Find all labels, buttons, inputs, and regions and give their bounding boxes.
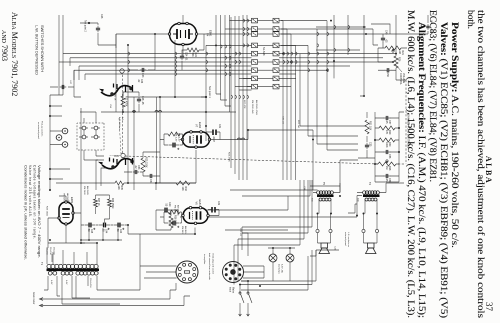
LS sockets channel 1 bbox=[329, 229, 332, 232]
wire: rails band 3 below switches bbox=[231, 15, 247, 180]
wire: V4 electrode connections bbox=[116, 15, 183, 56]
wire: plug leads bbox=[243, 266, 264, 278]
junction dots at rail crossings bbox=[395, 53, 397, 55]
svg-text:Alba Models 7901, 7902: Alba Models 7901, 7902 bbox=[10, 12, 19, 96]
svg-text:R50 1K: R50 1K bbox=[114, 93, 116, 101]
svg-text:C32: C32 bbox=[217, 201, 219, 206]
svg-text:250-0-250: 250-0-250 bbox=[89, 278, 91, 288]
pick-up plug dashed panel bbox=[77, 123, 104, 150]
svg-text:V4: V4 bbox=[206, 33, 210, 37]
svg-text:EL84: EL84 bbox=[198, 122, 202, 129]
svg-text:R37 1K: R37 1K bbox=[97, 198, 99, 206]
svg-text:CONTROL: CONTROL bbox=[399, 73, 402, 85]
capacitor C53 bbox=[133, 171, 140, 173]
svg-text:Gram motor: Gram motor bbox=[32, 292, 35, 304]
wire: V6 anode to T4 bbox=[209, 196, 363, 218]
svg-text:GANGED TONE CONTROLS: GANGED TONE CONTROLS bbox=[406, 114, 410, 148]
loudspeaker channel 2 bbox=[368, 243, 375, 248]
octal plug viewed from underside bbox=[223, 262, 244, 283]
pushbutton switch bank row S10-S18 (lower) bbox=[252, 18, 258, 23]
wire: rails from distribution band bbox=[279, 21, 373, 87]
pick-up socket circles bbox=[62, 128, 68, 134]
octal socket viewed from underside bbox=[176, 261, 198, 283]
wire: gram motor leads bbox=[41, 299, 184, 306]
capacitor C56 bbox=[384, 151, 391, 153]
svg-text:6-3V -3A: 6-3V -3A bbox=[281, 264, 284, 273]
svg-text:FM 50V: FM 50V bbox=[63, 193, 65, 201]
wire: T5 primary leads bbox=[313, 183, 340, 193]
svg-text:100K: 100K bbox=[385, 142, 388, 148]
potentiometer R28 tone 1M bbox=[378, 162, 396, 166]
T5 core bbox=[317, 195, 334, 197]
svg-text:and 7903: and 7903 bbox=[0, 30, 9, 61]
svg-text:Mains: Mains bbox=[232, 287, 234, 294]
svg-text:both viewed from underside: both viewed from underside bbox=[208, 253, 211, 281]
capacitor C55 bbox=[366, 143, 368, 150]
svg-text:C44: C44 bbox=[105, 229, 107, 234]
alignment label A.M. 600 dashed bbox=[119, 118, 121, 154]
wire: rails below switch unit bbox=[59, 54, 252, 74]
svg-text:C33: C33 bbox=[141, 73, 144, 78]
resistor R26 bbox=[394, 56, 398, 68]
capacitor C40 electrolytic + R38 bbox=[165, 208, 167, 213]
svg-text:C42 -01: C42 -01 bbox=[239, 228, 241, 237]
screened lead junction blobs bbox=[111, 165, 115, 169]
svg-text:Valves: (V1) ECC85; (V2) ECH81: Valves: (V1) ECC85; (V2) ECH81; (V3) EBF… bbox=[438, 22, 449, 318]
svg-text:V8: V8 bbox=[67, 200, 71, 204]
junction dots tone bus bbox=[398, 127, 400, 129]
capacitor C48 bbox=[138, 97, 140, 104]
svg-text:Alignment Frequencies: I.F. (A: Alignment Frequencies: I.F. (A.M.) 470 k… bbox=[416, 22, 427, 318]
svg-text:230-250: 230-250 bbox=[53, 247, 55, 255]
svg-text:C35 -01: C35 -01 bbox=[282, 116, 284, 125]
svg-text:dial lamps: dial lamps bbox=[278, 264, 280, 275]
svg-text:Pick-up sockets: Pick-up sockets bbox=[41, 121, 44, 137]
valve V7 EL84 bbox=[183, 132, 210, 147]
svg-text:Test point 2: Test point 2 bbox=[84, 20, 87, 32]
wire: nested bus wires right of switch area bbox=[234, 227, 312, 245]
svg-text:C45: C45 bbox=[90, 229, 92, 234]
wire: smoothing caps common bus bbox=[81, 228, 122, 240]
cathode network V7 bbox=[168, 132, 180, 136]
svg-text:R36 150Ω: R36 150Ω bbox=[111, 198, 113, 209]
wire: rectifier HT leads to T1 bbox=[48, 243, 97, 250]
svg-text:C49: C49 bbox=[385, 30, 388, 35]
wire: pot cluster ties bbox=[96, 156, 119, 190]
svg-text:33K: 33K bbox=[191, 53, 194, 58]
wire: long rail pair bottom bbox=[50, 15, 63, 95]
svg-text:C55: C55 bbox=[369, 142, 372, 147]
svg-text:input: input bbox=[229, 287, 232, 292]
T1 secondary winding heater 2 bbox=[53, 271, 57, 275]
T5 secondary winding bbox=[328, 198, 331, 201]
svg-text:AM 84V: AM 84V bbox=[184, 226, 187, 234]
wire: rail from volume area bbox=[279, 54, 396, 74]
wire: left feed rails into switch region bbox=[334, 15, 364, 96]
wire: T4 secondary to LS sockets bbox=[364, 200, 378, 230]
T1 secondary leads bbox=[48, 276, 97, 304]
alignment trimmer circle on gang line bbox=[121, 153, 125, 157]
wire: right bus verticals to mains area bbox=[241, 281, 316, 290]
wire: V8 connections bbox=[48, 196, 81, 243]
svg-text:L.W. BUTTON DEPRESSED: L.W. BUTTON DEPRESSED bbox=[35, 25, 39, 75]
svg-text:Valve heat 235 volts A145.: Valve heat 235 volts A145. bbox=[28, 165, 32, 217]
svg-text:C31: C31 bbox=[218, 124, 220, 129]
wire: tone network top bus bbox=[390, 112, 399, 182]
svg-text:Voltage readings taken on AVO: Voltage readings taken on AVO 7 ~ 400V r… bbox=[37, 165, 41, 258]
output transformer T5 primary winding bbox=[330, 191, 333, 194]
capacitor C57 bbox=[384, 117, 391, 119]
svg-text:the two channels has been achi: the two channels has been achieved, adju… bbox=[475, 10, 486, 318]
svg-text:R38 150Ω: R38 150Ω bbox=[174, 215, 177, 226]
wire: socket leads bbox=[140, 266, 177, 278]
pick-up plug pin pair 1 bbox=[94, 126, 98, 130]
dashed gang line running to lower controls bbox=[124, 156, 404, 164]
T4 core bbox=[363, 195, 380, 197]
svg-text:10K: 10K bbox=[181, 187, 184, 192]
wire: screen feeds bbox=[156, 150, 196, 234]
wire: T1 right side runs bbox=[44, 290, 140, 304]
resistor R36 bbox=[108, 199, 112, 207]
svg-text:Test point 1: Test point 1 bbox=[208, 86, 211, 98]
channel 2 screened lead heavy curve bbox=[101, 86, 132, 96]
coupling capacitor plates stack bbox=[110, 158, 133, 166]
svg-text:FM 240V: FM 240V bbox=[83, 186, 85, 195]
hops on band 3 bbox=[247, 19, 249, 22]
svg-text:C46: C46 bbox=[100, 14, 103, 19]
svg-text:EZ81: EZ81 bbox=[70, 197, 74, 204]
svg-text:Condensers noted in pF, unless: Condensers noted in pF, unless stated ot… bbox=[24, 165, 28, 260]
svg-text:1M: 1M bbox=[398, 51, 401, 54]
channel 2 screened lead blobs bbox=[110, 92, 114, 96]
valve V6 EL84 bbox=[183, 208, 208, 224]
capacitor C58 bbox=[384, 175, 391, 177]
intro paragraph text bbox=[405, 10, 486, 318]
capacitor C32 bbox=[212, 207, 215, 213]
wire: diode load wire across rails bbox=[174, 40, 176, 97]
svg-text:external panel: external panel bbox=[344, 232, 347, 246]
wire: distribution rails band 2 bbox=[281, 21, 296, 180]
wire: top stub wires bbox=[395, 15, 397, 54]
T1 primary tap leads bbox=[47, 248, 97, 264]
wire: aerial rail top branch bbox=[373, 29, 378, 45]
svg-text:Octal plug and socket: Octal plug and socket bbox=[212, 253, 215, 274]
pushbutton switch bank row S1-S9 (upper) bbox=[273, 18, 279, 23]
LS sockets channel 2 bbox=[375, 229, 378, 232]
screened lead heavy curve to gram input bbox=[102, 159, 133, 169]
svg-text:-005: -005 bbox=[430, 30, 432, 35]
wire: volume wiring bbox=[378, 34, 407, 62]
svg-text:S1-S18: S1-S18 bbox=[262, 47, 265, 56]
loudspeaker channel 1 bbox=[321, 243, 328, 248]
wire: right interconnects bbox=[310, 250, 339, 256]
hops on band 2 bbox=[296, 52, 298, 55]
resistor R31 bbox=[365, 120, 369, 134]
electrolytic C44 bbox=[104, 223, 106, 228]
svg-text:V6: V6 bbox=[195, 202, 199, 206]
svg-text:C34 -01: C34 -01 bbox=[185, 52, 188, 61]
svg-text:R26: R26 bbox=[398, 57, 401, 62]
svg-text:M.W. 600 kc/s. (L6, L4); 1500: M.W. 600 kc/s. (L6, L4); 1500 kc/s. (C16… bbox=[405, 10, 416, 318]
svg-text:EL84: EL84 bbox=[198, 200, 202, 207]
resistor R37 bbox=[94, 199, 98, 207]
wire: mains feed to primary bbox=[240, 281, 248, 293]
T1 secondary winding HT bbox=[94, 271, 98, 275]
wire: stems between switch rows bbox=[258, 20, 274, 22]
capacitor C51 bbox=[148, 175, 155, 177]
resistor R24 bbox=[187, 48, 199, 52]
svg-text:A.M. 600 kc/s: A.M. 600 kc/s bbox=[118, 117, 121, 131]
mains input arrows bbox=[239, 311, 250, 316]
electrolytic C43 bbox=[118, 223, 120, 228]
svg-text:C36: C36 bbox=[140, 79, 142, 84]
capacitor C31 bbox=[213, 130, 216, 136]
aerial isolating capacitor C52 bbox=[427, 24, 429, 30]
footer model title ALBA MODELS 7901, 7902 AND 7903 bbox=[0, 12, 19, 96]
T4 secondary winding bbox=[374, 198, 377, 201]
junction dots in switch rails bbox=[282, 53, 284, 55]
wire: HT rail horizontals lower bbox=[116, 34, 128, 183]
svg-text:C43: C43 bbox=[119, 229, 121, 234]
channel 2 coupling capacitor plates bbox=[114, 84, 133, 93]
resistor R35 in HT line bbox=[115, 181, 124, 185]
svg-text:1M: 1M bbox=[385, 166, 388, 169]
output transformer T4 primary winding bbox=[376, 191, 379, 194]
svg-text:R11 470K: R11 470K bbox=[125, 96, 128, 107]
svg-text:Power Supply: A.C. mains, 190-: Power Supply: A.C. mains, 190-260 volts,… bbox=[449, 22, 459, 248]
hops on center rails bbox=[159, 111, 162, 112]
resistor R32 screen feed bbox=[176, 181, 190, 185]
svg-text:6-3V: 6-3V bbox=[65, 280, 67, 285]
svg-text:SWITCHES SHOWN WITH: SWITCHES SHOWN WITH bbox=[40, 25, 44, 72]
note: switches shown with L.W. button depressed bbox=[35, 25, 45, 75]
svg-text:10K: 10K bbox=[117, 186, 120, 191]
svg-text:210-230: 210-230 bbox=[49, 247, 51, 255]
wire: plug feed verticals bbox=[206, 180, 313, 230]
svg-text:to amplifier: to amplifier bbox=[203, 254, 206, 264]
svg-text:R23 470K: R23 470K bbox=[228, 152, 230, 162]
resistor R25 bbox=[141, 158, 145, 172]
test point 1 marker bbox=[205, 96, 207, 98]
dashed gang line to channel 2 control bbox=[122, 74, 124, 153]
svg-text:R25 220K: R25 220K bbox=[145, 157, 148, 168]
wire: channel interconnect lines bbox=[310, 160, 358, 193]
hops band 3/4 crossings bbox=[230, 45, 232, 48]
svg-text:C56: C56 bbox=[388, 154, 391, 159]
resistor R30 bbox=[379, 138, 395, 142]
mains switch contact 1 bbox=[247, 292, 249, 294]
svg-text:FM 230V 4kΩ: FM 230V 4kΩ bbox=[251, 100, 253, 114]
wire: V7 anode to T5 bbox=[210, 130, 318, 190]
electrolytic C45 bbox=[89, 223, 91, 228]
svg-text:R27 47K: R27 47K bbox=[243, 100, 245, 109]
capacitor C47 bbox=[60, 86, 67, 88]
wire: gram lead tie-ins bbox=[170, 290, 190, 306]
capacitor C46 and test point 2 bbox=[97, 26, 99, 33]
svg-text:L.S. sockets on: L.S. sockets on bbox=[347, 232, 350, 248]
wire: HT vertical x=183 bbox=[56, 183, 196, 190]
T1 secondary winding heater 1 bbox=[69, 271, 73, 275]
wire: long aerial rail from top bbox=[279, 33, 425, 35]
wire: heater run lower bbox=[74, 70, 81, 97]
svg-text:47K: 47K bbox=[385, 130, 388, 135]
wire: aerial corner wire bbox=[371, 24, 390, 34]
cathode network V6 bbox=[168, 210, 180, 214]
svg-text:ECC83; (V6) EL84; (V7) EL84; (: ECC83; (V6) EL84; (V7) EL84; (V8) EZ81. bbox=[427, 10, 438, 182]
dial lamp 2 bbox=[269, 254, 277, 262]
mains transformer T1 core bbox=[47, 268, 100, 271]
wire: earth line under pick-up sockets bbox=[49, 95, 51, 190]
valve V8 EZ81 rectifier bbox=[59, 202, 73, 224]
svg-text:both.: both. bbox=[465, 10, 475, 29]
T1 primary winding loops bbox=[94, 264, 98, 268]
wire: long rail y419 bbox=[81, 108, 85, 243]
svg-text:190-210: 190-210 bbox=[46, 247, 48, 255]
wire: smoothing cap ties bbox=[81, 225, 170, 234]
svg-text:6-3V: 6-3V bbox=[50, 280, 52, 285]
wire: V4 grid rail bbox=[201, 45, 206, 141]
channel 2 ganged control trimmer bbox=[120, 69, 124, 73]
svg-text:R43 150Ω: R43 150Ω bbox=[46, 206, 48, 216]
svg-text:Cathode voltages taken on 10V: Cathode voltages taken on 10V range. bbox=[33, 165, 37, 239]
note: voltage reading conditions bbox=[24, 165, 42, 260]
svg-text:R31 10K: R31 10K bbox=[369, 121, 372, 131]
resistor R29 bbox=[379, 126, 395, 130]
svg-text:AM 248V: AM 248V bbox=[86, 186, 89, 196]
resistor R11 feed bbox=[121, 96, 125, 107]
capacitor C34 bbox=[181, 54, 183, 61]
potentiometer R21 volume 1M bbox=[385, 46, 401, 50]
wire: pick-up stub leads bbox=[50, 106, 70, 179]
pick-up plug pin pair 2 bbox=[82, 126, 86, 130]
svg-text:on external panel: on external panel bbox=[37, 122, 40, 139]
dashed gang line label GANGED TONE CONTROLS bbox=[405, 80, 407, 164]
svg-text:V7: V7 bbox=[195, 124, 199, 128]
mains switch contact 2 bbox=[239, 292, 241, 294]
wire: T5 secondary to LS sockets bbox=[318, 200, 332, 230]
capacitor C50 bbox=[385, 69, 392, 71]
wire: long vertical rails center bbox=[101, 97, 230, 190]
valve V4 EB91 double diode bbox=[170, 24, 197, 45]
svg-text:AM 250V 47kΩ: AM 250V 47kΩ bbox=[255, 100, 258, 115]
svg-text:R22 1M: R22 1M bbox=[297, 120, 299, 128]
svg-text:FM 84V: FM 84V bbox=[181, 226, 183, 234]
svg-text:C48 -05: C48 -05 bbox=[141, 96, 144, 105]
wire: tone network bottom bus bbox=[375, 112, 384, 182]
capacitor C49 bbox=[382, 36, 384, 43]
dial lamp 1 bbox=[286, 254, 294, 262]
wire: T4 primary leads bbox=[357, 183, 404, 193]
svg-text:C50: C50 bbox=[386, 73, 389, 78]
wire: distribution rails band 1 bbox=[300, 21, 327, 150]
hops on band 1 bbox=[327, 33, 329, 36]
wire: switch output rails band 4 to detector bbox=[216, 15, 230, 112]
wire: lamp leads to bus bbox=[268, 248, 295, 281]
capacitor C33 bbox=[140, 69, 147, 71]
